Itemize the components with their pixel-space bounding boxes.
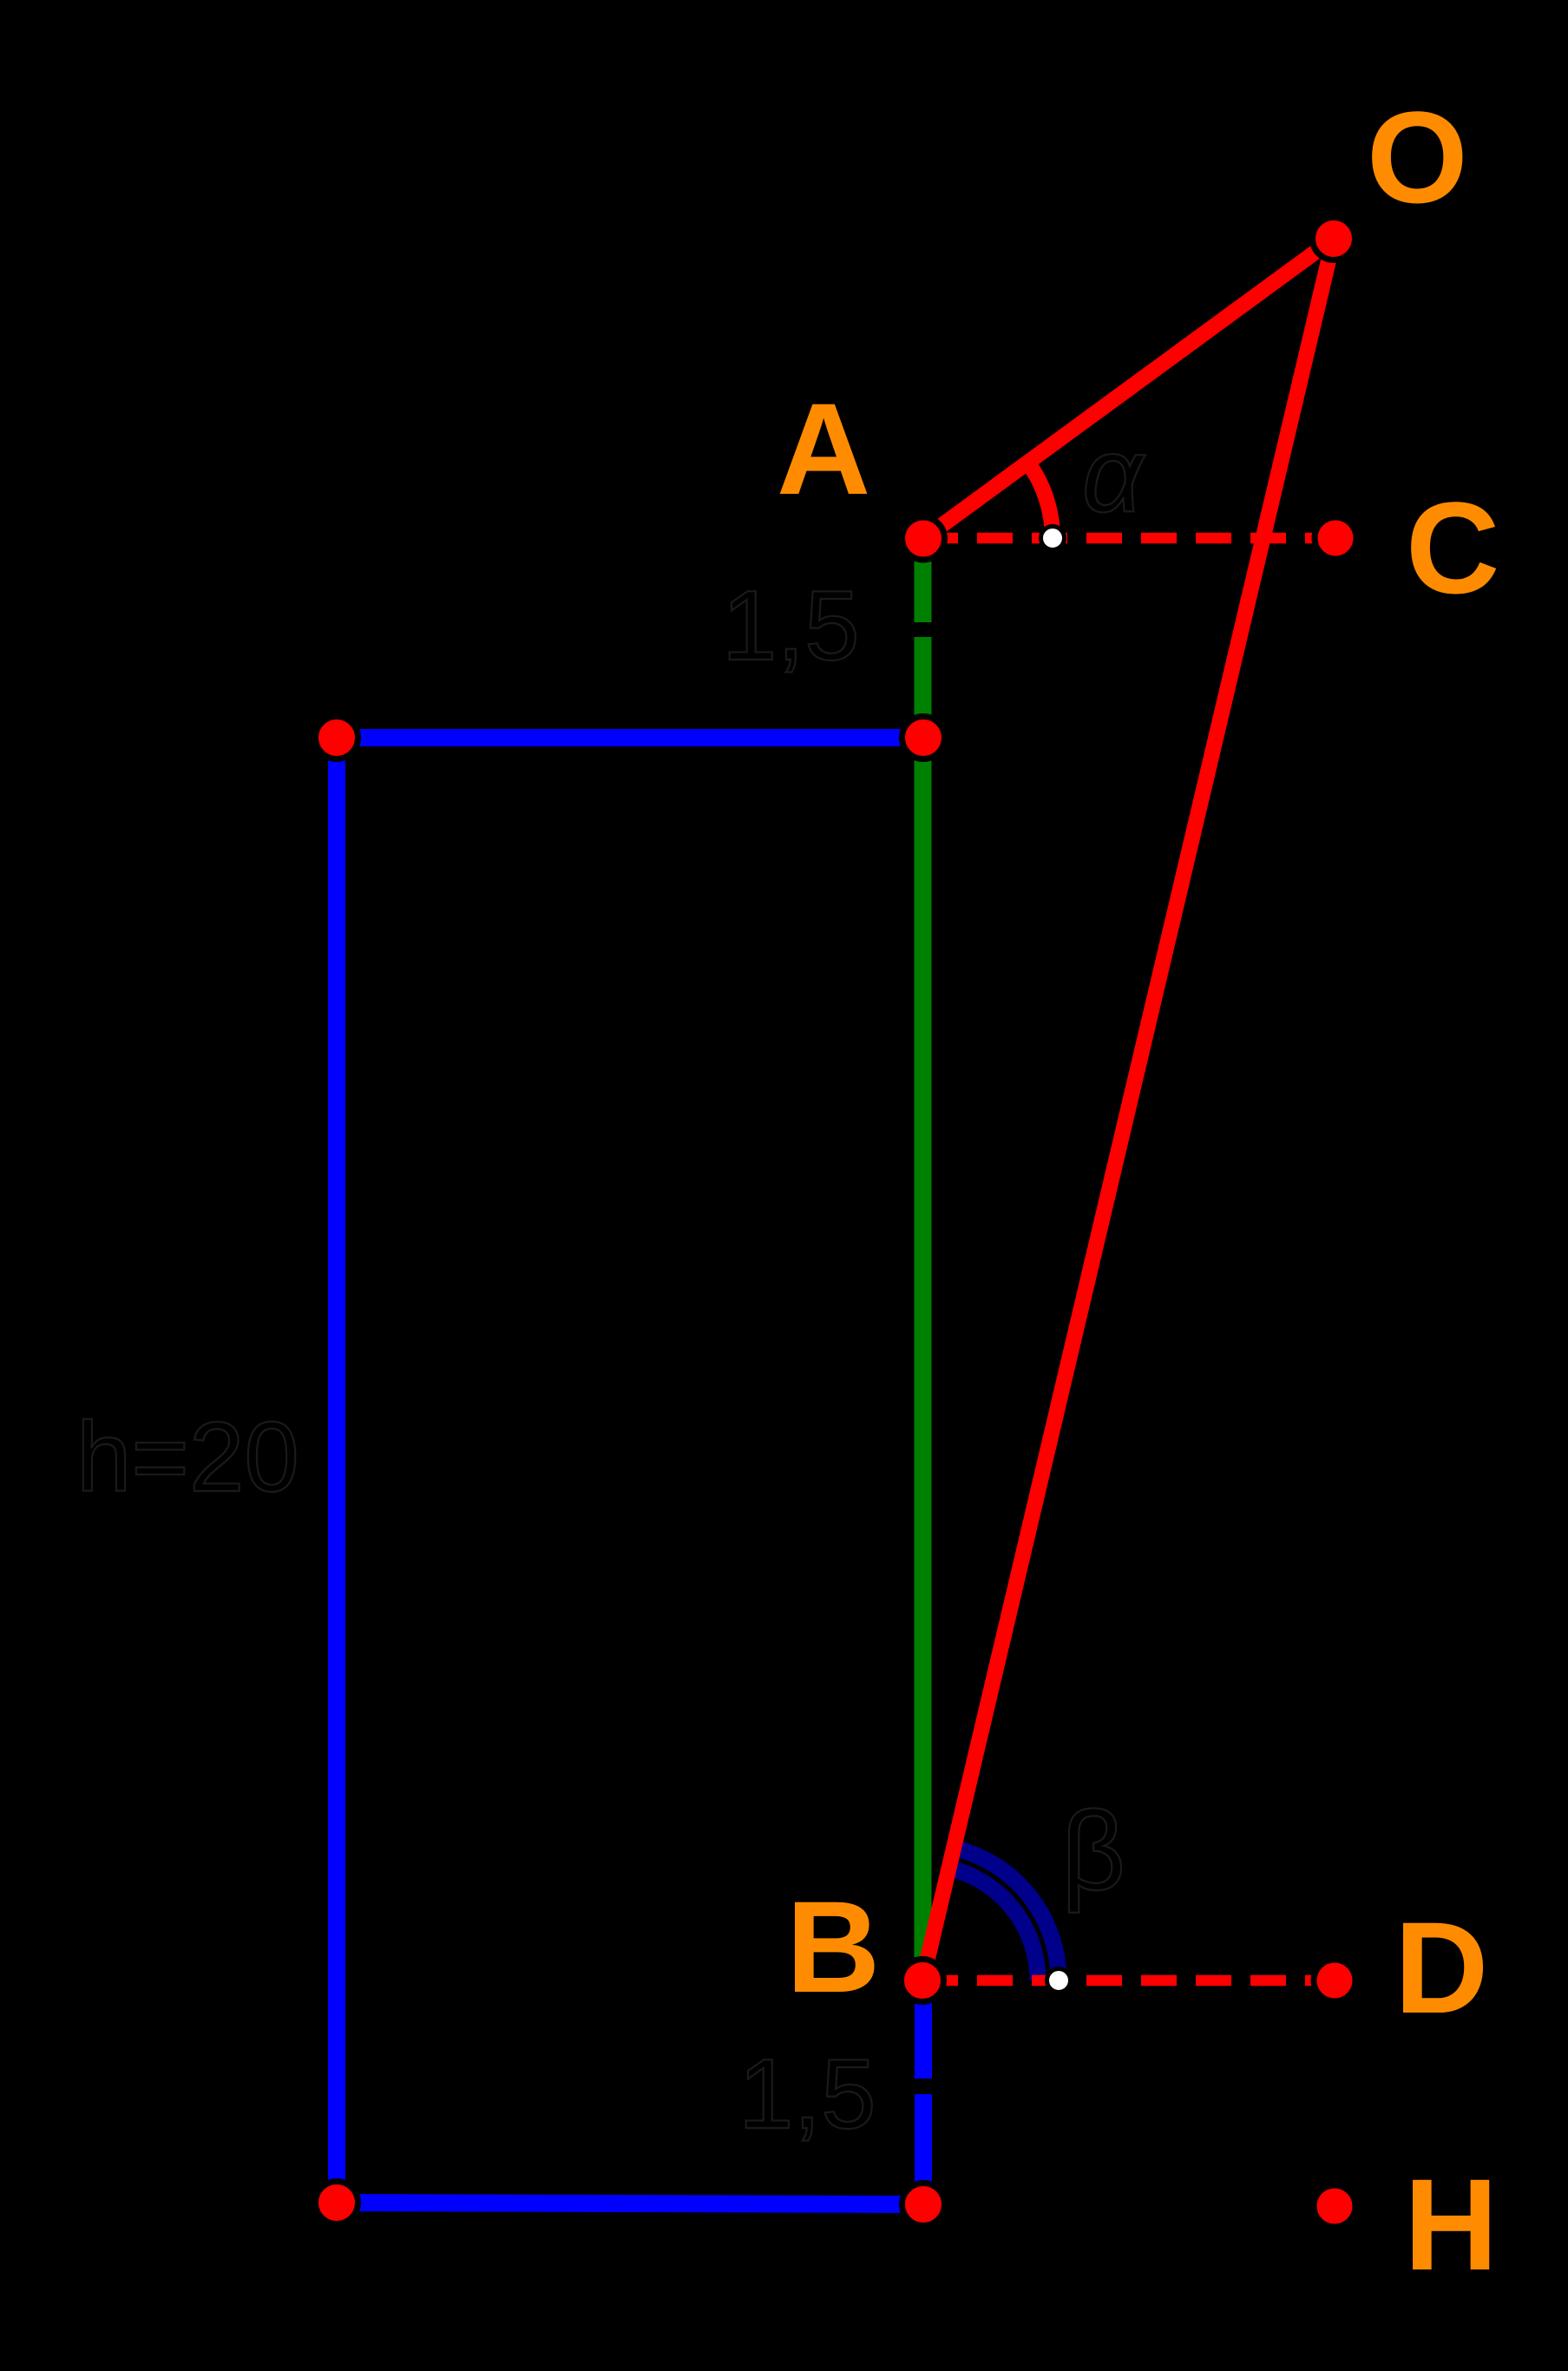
wire blue left edge h=20 (328, 738, 345, 2203)
wire blue segment B to bottom-right corner (1,5) upper part (915, 1980, 932, 2079)
node white point on AC (angle alpha marker) (1041, 527, 1065, 550)
node bottom-left corner (316, 2182, 358, 2224)
node H (1314, 2185, 1355, 2227)
svg-text:β: β (1061, 1789, 1125, 1914)
node B (902, 1960, 944, 2002)
svg-text:B: B (786, 1874, 880, 2020)
svg-text:A: A (777, 376, 870, 522)
wire blue top edge of rectangle (337, 729, 923, 746)
svg-text:C: C (1406, 475, 1499, 621)
svg-text:α: α (1082, 416, 1146, 535)
node D (1314, 1960, 1355, 2001)
wire blue segment B to bottom-right corner (1,5) lower part (915, 2094, 932, 2204)
node top-left corner (316, 717, 358, 759)
svg-text:O: O (1367, 84, 1468, 230)
svg-text:1,5: 1,5 (722, 571, 859, 681)
node top-right corner (902, 717, 945, 759)
wire dashed red line A to C (922, 533, 1335, 544)
node O (1313, 218, 1355, 260)
wire red line O to B (922, 239, 1334, 1980)
wire green segment A down, above tick (915, 539, 932, 622)
wire blue bottom edge (337, 2203, 923, 2204)
node A (902, 517, 945, 560)
svg-text:h=20: h=20 (76, 1402, 299, 1513)
wire green segment A to B below tick (915, 637, 932, 1980)
angle beta inner arc at B (949, 1869, 1038, 1981)
node white point on BD (angle beta marker) (1047, 1969, 1071, 1993)
node bottom-right corner (902, 2184, 945, 2226)
angle beta outer arc at B (954, 1848, 1059, 1980)
wire dashed red line B to D (922, 1975, 1335, 1987)
node C (1315, 517, 1356, 559)
svg-text:1,5: 1,5 (738, 2039, 876, 2150)
svg-text:H: H (1404, 2151, 1498, 2297)
svg-text:D: D (1394, 1895, 1488, 2040)
angle alpha arc at A (1027, 463, 1053, 539)
wire red line O to A (923, 239, 1334, 539)
